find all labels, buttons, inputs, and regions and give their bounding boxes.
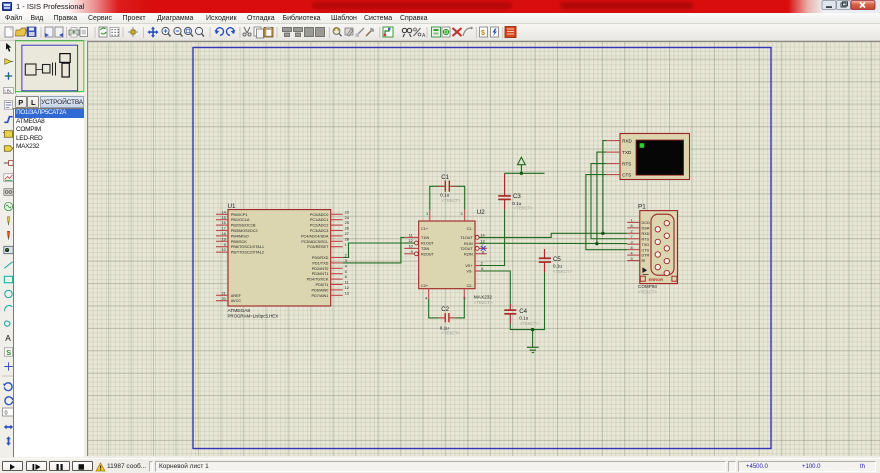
svg-text:28: 28 [345,236,349,241]
svg-text:PB0/ICP1: PB0/ICP1 [231,213,248,217]
svg-text:9: 9 [411,249,413,254]
svg-text:CTS: CTS [622,172,631,177]
svg-text:17: 17 [221,226,225,231]
wire terminal TXD down [597,152,606,244]
title bar [0,0,880,13]
svg-text:18: 18 [221,231,225,236]
wire terminal RTS to COMPIM RTS [591,164,627,239]
svg-text:27: 27 [345,231,349,236]
svg-text:U1: U1 [228,203,237,210]
svg-text:1: 1 [630,219,632,223]
terminal pin RTS [606,163,620,165]
svg-text:<ТЕКСТ>: <ТЕКСТ> [514,205,533,210]
svg-text:C2-: C2- [467,284,474,288]
play button glyph [10,464,15,470]
svg-text:6: 6 [345,274,347,279]
svg-text:ERROR: ERROR [649,277,664,282]
svg-text:C1: C1 [441,174,449,181]
svg-text:RXD: RXD [622,138,632,143]
mini U1 [25,64,36,75]
U1 pin 21 AREF [216,294,228,296]
P1 D-sub hole right 5 [664,270,669,275]
wire T1OUT to COMPIM RXD [479,233,627,237]
svg-text:AREF: AREF [231,294,242,298]
svg-text:<ТЕКСТ>: <ТЕКСТ> [520,321,539,326]
U1 pin 13 PD7/AIN1 [331,294,343,296]
svg-text:CTS: CTS [642,248,650,252]
U1 pin 10 PB7/TOSC2/XTAL2 [216,251,228,253]
P1 signal glyph [642,267,647,273]
sheet border [193,48,771,449]
P1 D-sub hole right 2 [664,233,669,238]
warning icon [96,463,105,471]
title text [16,2,84,11]
wire VS+ to C3 bottom [480,210,505,266]
P1 D-sub hole left 1 [655,227,660,232]
U2 pin 11 T1IN [404,236,418,238]
svg-text:14: 14 [480,233,485,238]
mini caps [51,63,53,76]
svg-text:<ТЕКСТ>: <ТЕКСТ> [441,331,460,336]
mini COMPIM [62,63,69,77]
U2 pin 12 R1OUT (bubble) [415,241,419,245]
svg-text:PC1/ADC1: PC1/ADC1 [310,218,329,222]
U1 pin 19 PB5/SCK [216,240,228,242]
P1 D-sub hole right 1 [664,221,669,226]
capacitor C4 leads [509,304,511,310]
P1 pin 3 TXD [627,243,640,245]
op-amp U1 body (ATMEGA8) [228,210,331,306]
svg-text:6: 6 [630,224,632,228]
svg-text:C1+: C1+ [421,227,429,231]
node ground rail junction [531,328,534,331]
svg-text:AVCC: AVCC [231,299,242,303]
svg-text:U2: U2 [477,209,486,216]
op-amp U2 body (MAX232) [419,221,475,289]
svg-text:0.1u: 0.1u [553,263,562,268]
svg-text:C4: C4 [519,308,527,315]
svg-text:14: 14 [221,209,226,214]
mini terminal [59,54,69,63]
svg-text:RI: RI [642,259,646,263]
U1 pin 2 PD0/RXD [331,257,343,259]
connector P1 body (COMPIM) [640,211,678,284]
svg-text:PC2/ADC2: PC2/ADC2 [310,224,329,228]
svg-text:20: 20 [221,296,226,301]
U1 pin 18 PB4/MISO [216,235,228,237]
svg-text:RTS: RTS [642,237,650,241]
toolbar [0,24,880,41]
svg-text:8: 8 [482,250,484,255]
maximize button [837,1,851,10]
step button glyph [33,464,35,470]
svg-text:0.1u: 0.1u [440,192,449,197]
wire PD1/TXD to T1IN [343,237,405,263]
capacitor C1 plates [444,181,446,192]
svg-text:PD7/AIN1: PD7/AIN1 [312,294,329,298]
svg-text:PD6/AIN0: PD6/AIN0 [312,288,329,292]
svg-text:PD5/T1: PD5/T1 [316,283,329,287]
preview panel [15,40,85,94]
U1 pin 15 PB1/OC1A [216,219,228,221]
svg-text:13: 13 [345,290,349,295]
svg-text:DSR: DSR [642,226,650,230]
virtual terminal screen [636,140,684,175]
svg-text:C2+: C2+ [421,284,429,288]
wire R1IN to COMPIM TXD [480,242,628,244]
svg-text:PD3/INT1: PD3/INT1 [312,272,329,276]
svg-text:2: 2 [345,253,347,258]
U1 pin 24 PC1/ADC1 [331,219,343,221]
mini U2 [42,65,50,74]
menu bar [0,13,880,25]
svg-text:RTS: RTS [622,161,631,166]
P1 pin 4 DTR [627,254,640,256]
svg-text:<ТЕКСТ>: <ТЕКСТ> [442,198,461,203]
P1 pin 2 RXD [627,232,640,234]
P1 pin 7 RTS [627,238,640,240]
U2 pin 2 VS+ [475,265,480,267]
mini wires [36,69,43,71]
P button [15,96,27,108]
ground [532,330,534,348]
wire terminal RXD down [603,141,606,234]
svg-text:10: 10 [408,244,413,249]
node power rail junction [520,172,523,175]
svg-text:4: 4 [425,295,428,300]
svg-text:C3: C3 [513,193,521,200]
svg-text:25: 25 [345,220,349,225]
virtual terminal body [620,134,690,180]
close button [851,1,875,10]
svg-text:R1OUT: R1OUT [421,242,435,246]
svg-text:TXD: TXD [642,243,650,247]
U1 pin 9 PB6/TOSC1/XTAL1 [216,246,228,248]
P1 pin 1 DCD [627,221,640,223]
node RXD junction [601,232,604,235]
svg-text:19: 19 [221,236,225,241]
L button [27,96,39,108]
P1 pin 8 CTS [627,249,640,251]
capacitor C2 plates [444,313,446,322]
terminal pin CTS [606,174,620,176]
svg-text:24: 24 [345,215,350,220]
svg-text:0: 0 [5,411,8,417]
P1 D-sub hole right 4 [664,258,669,263]
wire C4 bottom rail [510,272,544,329]
U2 pin 3 C1- [464,210,466,222]
minimize button [822,1,836,10]
svg-text:PD4/T0/XCK: PD4/T0/XCK [307,278,329,282]
svg-text:PD1/TXD: PD1/TXD [312,261,328,265]
P1 D-sub hole left 3 [655,252,660,257]
U1 pin 14 PB0/ICP1 [216,213,228,215]
node TXD junction [595,242,598,245]
svg-text:23: 23 [345,209,349,214]
U2 pin 14 T1OUT (bubble) [475,236,479,240]
svg-text:T2IN: T2IN [421,247,429,251]
wire terminal CTS to COMPIM CTS [586,175,627,250]
svg-text:P1: P1 [638,203,646,210]
svg-text:3: 3 [345,258,347,263]
svg-text:10: 10 [221,247,226,252]
svg-text:9: 9 [630,257,632,261]
svg-text:T1OUT: T1OUT [460,236,473,240]
svg-text:DCD: DCD [642,221,650,225]
erc icon [491,27,499,37]
svg-text:PB1/OC1A: PB1/OC1A [231,218,250,222]
svg-text:PC6/RESET: PC6/RESET [307,245,329,249]
svg-text:15: 15 [221,215,225,220]
svg-text:PB3/MOSI/OC2: PB3/MOSI/OC2 [231,229,258,233]
U1 pin 5 PD3/INT1 [331,273,343,275]
svg-text:PB5/SCK: PB5/SCK [231,240,248,244]
P1 pin 9 RI [627,260,640,262]
bom icon [480,27,488,37]
U2 pin 8 R2IN (dangling) [475,253,487,255]
svg-text:3: 3 [460,211,462,216]
svg-text:11: 11 [409,233,413,238]
svg-text:26: 26 [345,226,349,231]
svg-text:2: 2 [481,261,483,266]
terminal pin RXD [606,140,620,142]
svg-text:1: 1 [426,211,428,216]
svg-text:2: 2 [630,230,632,234]
svg-text:<ТЕКСТ>: <ТЕКСТ> [638,289,657,294]
svg-text:PD0/RXD: PD0/RXD [312,256,329,260]
svg-text:RXD: RXD [642,232,650,236]
U1 pin 16 PB2/SS/OC1B [216,224,228,226]
svg-text:PC3/ADC3: PC3/ADC3 [310,229,329,233]
U1 pin 20 AVCC [216,300,228,302]
P1 D-sub hole left 4 [655,264,660,269]
svg-text:11: 11 [345,280,349,285]
stop button glyph [79,464,85,470]
wire VS- to C4 top [480,271,511,304]
U2 pin 7 T2OUT (bubble, dangling) [475,247,479,251]
U2 pin 9 R2OUT (bubble) [415,252,419,256]
capacitor C4 plates [504,309,516,311]
svg-text:PD2/INT0: PD2/INT0 [312,267,329,271]
U1 pin 1 PC6/RESET [331,246,343,248]
svg-text:PB6/TOSC1/XTAL1: PB6/TOSC1/XTAL1 [231,245,264,249]
canvas grid [87,41,880,456]
svg-text:0.1u: 0.1u [519,316,528,321]
ARES icon [505,27,516,38]
no-connect X marker on T2OUT [481,246,486,251]
capacitor C5 plates [539,257,551,259]
U1 pin 25 PC2/ADC2 [331,224,343,226]
svg-text:R1IN: R1IN [464,242,473,246]
left mode toolbar [0,41,17,457]
svg-text:TXD: TXD [622,150,632,155]
U1 pin 11 PD5/T1 [331,284,343,286]
U1 pin 23 PC0/ADC0 [331,213,343,215]
svg-text:A: A [5,333,11,343]
svg-text:LBL: LBL [4,89,12,94]
preview overview panel [15,41,83,92]
svg-text:VS+: VS+ [465,264,473,268]
svg-text:T2OUT: T2OUT [460,247,473,251]
svg-text:5: 5 [345,269,347,274]
left toolbar mode icons [6,43,11,52]
svg-text:4: 4 [630,251,632,255]
svg-text:0.1u: 0.1u [440,325,449,330]
capacitor C2 wiring [429,299,444,318]
svg-text:1: 1 [345,242,347,247]
svg-text:PB2/SS/OC1B: PB2/SS/OC1B [231,224,256,228]
svg-text:4: 4 [345,263,348,268]
svg-text:12: 12 [408,238,412,243]
U1 pin 28 PC5/ADC5/SCL [331,240,343,242]
P1 D-sub outline [651,214,674,275]
U1 pin 3 PD1/TXD [331,262,343,264]
capacitor C3 leads [504,173,506,196]
svg-text:DTR: DTR [642,254,650,258]
svg-text:C2: C2 [441,306,449,313]
svg-text:VS-: VS- [466,270,473,274]
capacitor C1 wiring [430,186,444,209]
svg-text:R2OUT: R2OUT [421,252,435,256]
svg-text:6: 6 [481,266,483,271]
svg-text:PC0/ADC0: PC0/ADC0 [310,213,329,217]
P1 error checkbox left [640,276,645,281]
svg-text:C5: C5 [553,256,561,263]
svg-text:PC5/ADC5/SCL: PC5/ADC5/SCL [301,240,328,244]
U2 pin 6 VS- [475,270,480,272]
window buttons [818,0,880,13]
P1 D-sub hole left 2 [655,239,660,244]
U1 pin 17 PB3/MOSI/OC2 [216,230,228,232]
wire PD0/RXD to R1OUT [343,243,415,258]
toolbar icons [5,27,13,37]
svg-text:PB7/TOSC2/XTAL2: PB7/TOSC2/XTAL2 [231,251,264,255]
U2 pin 1 C1+ [429,210,431,222]
power terminal (up arrow) [518,157,526,165]
P1 pin 6 DSR [627,227,640,229]
svg-text:R2IN: R2IN [464,252,473,256]
capacitor C3 plates [498,195,511,197]
U2 pin 13 R1IN [475,242,480,244]
svg-text:9: 9 [224,242,226,247]
capacitor C5 leads [544,249,546,258]
svg-text:7: 7 [630,235,632,239]
svg-text:8: 8 [630,246,632,250]
svg-text:C1-: C1- [467,227,474,231]
U1 pin 27 PC4/ADC4/SDA [331,235,343,237]
wire power rail [505,172,545,174]
svg-text:S: S [6,348,11,357]
P1 error checkbox right [672,276,677,281]
pause button glyph [57,464,59,470]
svg-text:16: 16 [221,220,225,225]
svg-text:3: 3 [630,241,632,245]
U1 pin 12 PD6/AIN0 [331,289,343,291]
app icon [2,2,12,11]
svg-text:12: 12 [345,285,349,290]
svg-text:21: 21 [221,290,225,295]
U2 pin 5 C2- [463,289,465,299]
U1 pin 6 PD4/T0/XCK [331,278,343,280]
terminal cursor [640,143,645,148]
devices header [40,96,84,108]
U1 pin 4 PD2/INT0 [331,267,343,269]
svg-text:T1IN: T1IN [421,236,429,240]
bottom bar [0,458,880,473]
U1 pin 26 PC3/ADC3 [331,230,343,232]
svg-text:<ТЕКСТ>: <ТЕКСТ> [474,300,493,305]
U2 pin 10 T2IN [404,247,418,249]
svg-text:PB4/MISO: PB4/MISO [231,234,249,238]
P1 D-sub hole right 3 [664,246,669,251]
svg-text:<ТЕКСТ>: <ТЕКСТ> [553,269,572,274]
svg-text:PROGRAM=List\pc5.HEX: PROGRAM=List\pc5.HEX [228,313,279,318]
device list [13,108,84,457]
U2 pin 4 C2+ [428,289,430,299]
svg-text:PC4/ADC4/SDA: PC4/ADC4/SDA [301,234,329,238]
terminal pin TXD [606,151,620,153]
